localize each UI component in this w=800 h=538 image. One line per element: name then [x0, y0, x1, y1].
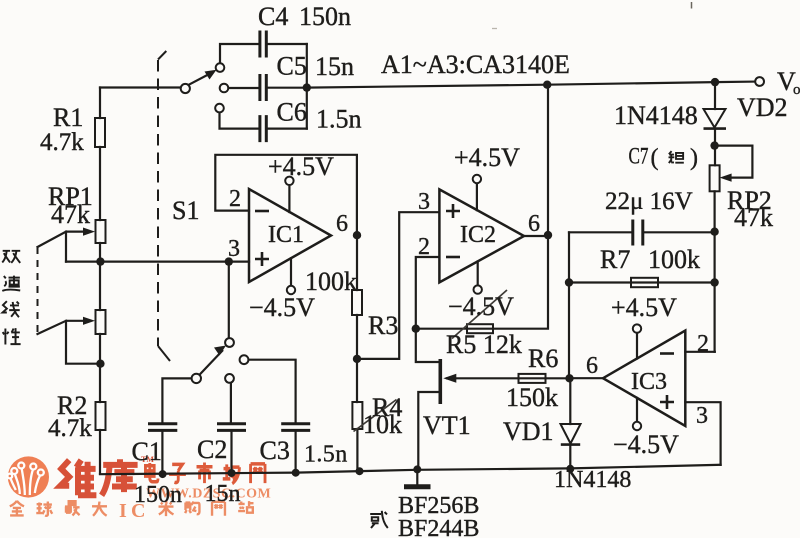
svg-text:−4.5V: −4.5V [448, 292, 514, 321]
svg-text:R5 12k: R5 12k [446, 330, 522, 359]
svg-text:−4.5V: −4.5V [249, 293, 315, 322]
svg-text:4.7k: 4.7k [48, 415, 92, 442]
svg-text:150n: 150n [299, 2, 351, 31]
svg-text:150n: 150n [134, 482, 182, 508]
svg-text:+4.5V: +4.5V [268, 152, 334, 181]
svg-text:150k: 150k [506, 383, 558, 412]
svg-text:C5: C5 [277, 52, 307, 81]
svg-text:15n: 15n [315, 52, 354, 81]
svg-text:C7: C7 [629, 144, 649, 169]
svg-text:1.5n: 1.5n [316, 105, 362, 134]
svg-text:1.5n: 1.5n [304, 442, 348, 468]
svg-text:2: 2 [418, 234, 430, 260]
svg-text:2: 2 [697, 331, 709, 357]
svg-text:R1: R1 [53, 103, 83, 132]
svg-text:47k: 47k [734, 203, 773, 232]
svg-text:4.7k: 4.7k [40, 129, 84, 156]
svg-text:100k: 100k [648, 245, 700, 274]
svg-text:1N4148: 1N4148 [554, 467, 631, 493]
svg-text:VD1: VD1 [503, 417, 554, 446]
svg-text:IC2: IC2 [460, 222, 496, 248]
svg-text:VT1: VT1 [423, 411, 471, 440]
svg-text:C4: C4 [258, 2, 288, 31]
svg-text:BF244B: BF244B [398, 516, 479, 538]
svg-text:10k: 10k [363, 410, 402, 439]
svg-text:+4.5V: +4.5V [611, 293, 677, 322]
svg-text:C2: C2 [197, 435, 227, 464]
svg-text:VD2: VD2 [737, 93, 788, 122]
svg-text:A1~A3:CA3140E: A1~A3:CA3140E [381, 50, 570, 79]
svg-text:1N4148: 1N4148 [614, 101, 698, 130]
svg-text:(: ( [651, 145, 659, 171]
svg-text:I: I [119, 500, 127, 522]
svg-text:6: 6 [336, 211, 348, 237]
svg-text:−4.5V: −4.5V [613, 430, 679, 459]
svg-text:C3: C3 [260, 436, 290, 465]
svg-text:15n: 15n [205, 481, 241, 507]
svg-text:C1: C1 [132, 437, 162, 466]
svg-text:R7: R7 [600, 245, 630, 274]
svg-text:): ) [690, 145, 698, 171]
svg-text:R6: R6 [528, 344, 558, 373]
svg-text:6: 6 [586, 353, 598, 379]
svg-text:R3: R3 [368, 311, 398, 340]
svg-text:IC3: IC3 [631, 369, 667, 395]
svg-text:S1: S1 [172, 196, 199, 225]
svg-text:3: 3 [418, 189, 430, 215]
svg-text:6: 6 [528, 211, 540, 237]
svg-text:3: 3 [696, 403, 708, 429]
svg-text:+4.5V: +4.5V [454, 143, 520, 172]
svg-text:IC1: IC1 [268, 222, 304, 248]
svg-text:2: 2 [229, 186, 241, 212]
svg-text:C6: C6 [277, 98, 307, 127]
svg-text:3: 3 [228, 236, 240, 262]
svg-text:o: o [793, 82, 800, 98]
svg-text:22μ 16V: 22μ 16V [605, 188, 693, 215]
svg-text:47k: 47k [51, 200, 90, 229]
svg-text:100k: 100k [305, 267, 357, 296]
